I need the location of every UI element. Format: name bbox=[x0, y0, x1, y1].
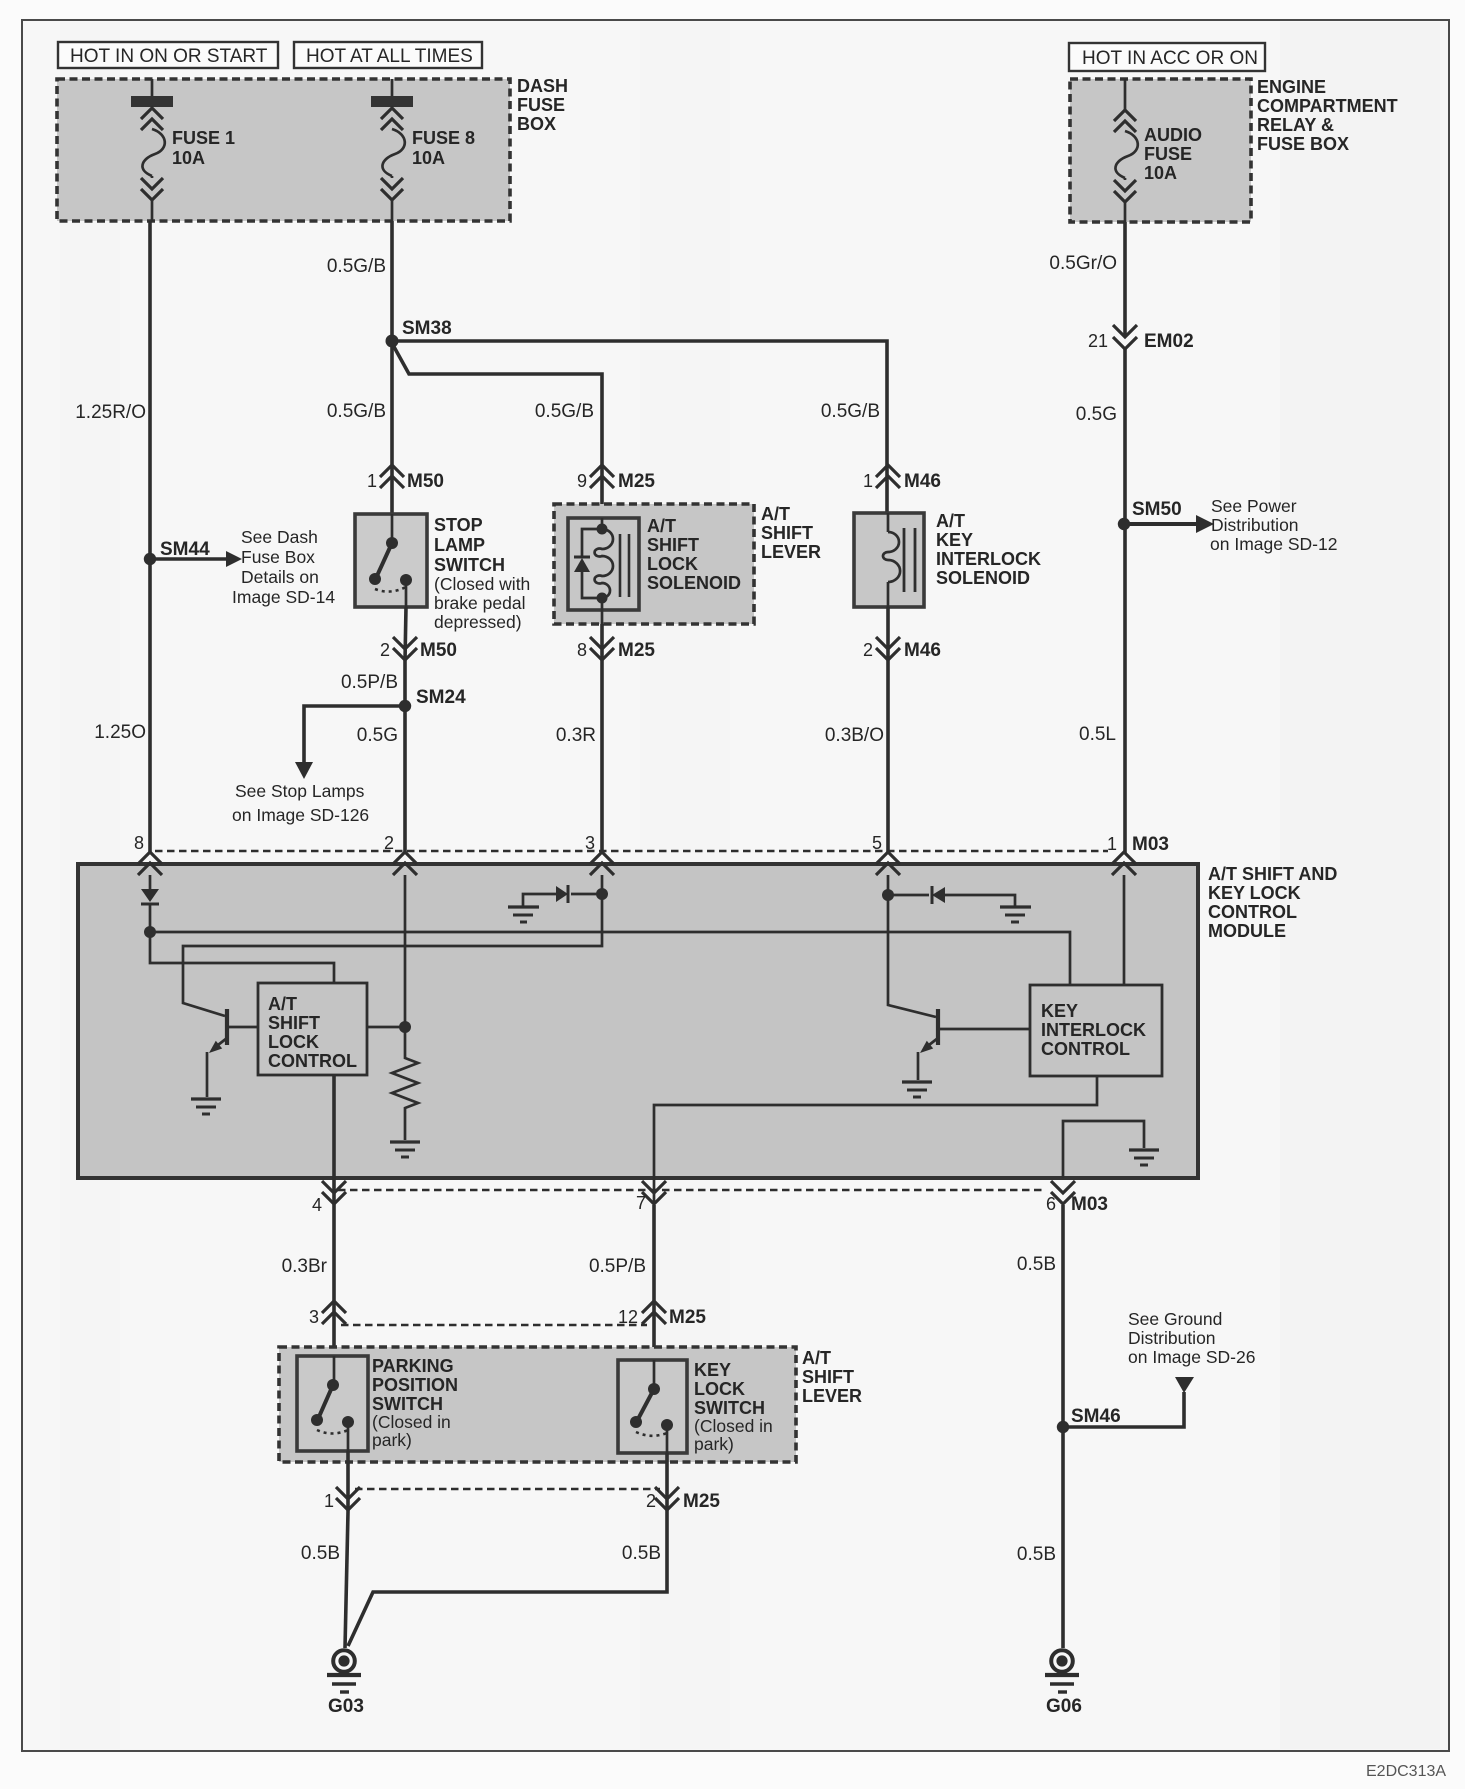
svg-text:0.5G/B: 0.5G/B bbox=[327, 256, 386, 277]
connector M50 pin 1 bbox=[367, 465, 444, 492]
svg-text:LAMP: LAMP bbox=[434, 535, 485, 555]
module pin 6 bbox=[1046, 1181, 1108, 1215]
wire SM38 to M46 column bbox=[392, 341, 887, 513]
diode D2 at pin 3 with ground bbox=[523, 885, 602, 906]
transistor Q2 (key interlock) bbox=[918, 1009, 1030, 1080]
svg-text:ENGINE: ENGINE bbox=[1257, 77, 1326, 97]
dash fuse box (dashed enclosure) bbox=[57, 76, 568, 221]
svg-text:HOT IN ACC OR ON: HOT IN ACC OR ON bbox=[1082, 48, 1258, 69]
svg-text:2: 2 bbox=[863, 640, 873, 660]
wire rail pin8 to key interlock control bbox=[150, 932, 1070, 985]
svg-text:A/T: A/T bbox=[268, 994, 297, 1014]
wire M25-1 to ground G03 bbox=[345, 1512, 348, 1648]
A/T shift lever (dashed enclosure, solenoid) bbox=[554, 504, 821, 624]
switch PARKING POSITION SWITCH bbox=[297, 1356, 458, 1451]
wire SM38 branch to M25 column bbox=[393, 345, 602, 518]
svg-text:0.5G: 0.5G bbox=[1076, 404, 1117, 425]
svg-text:10A: 10A bbox=[412, 148, 445, 168]
wire label 0.5B (parking) bbox=[301, 1543, 340, 1564]
svg-text:LOCK: LOCK bbox=[694, 1379, 745, 1399]
svg-text:E2DC313A: E2DC313A bbox=[1366, 1763, 1446, 1780]
svg-text:A/T: A/T bbox=[647, 516, 676, 536]
svg-text:SM38: SM38 bbox=[402, 318, 452, 339]
svg-text:A/T: A/T bbox=[761, 504, 790, 524]
svg-text:G06: G06 bbox=[1046, 1696, 1082, 1717]
svg-text:3: 3 bbox=[585, 833, 595, 853]
svg-text:AUDIO: AUDIO bbox=[1144, 125, 1202, 145]
svg-text:0.5G: 0.5G bbox=[357, 725, 398, 746]
svg-text:PARKING: PARKING bbox=[372, 1356, 454, 1376]
wire M25-2 to ground G03 bbox=[348, 1512, 667, 1646]
svg-text:MODULE: MODULE bbox=[1208, 921, 1286, 941]
node SM46 with ground distribution branch bbox=[1057, 1309, 1256, 1433]
fuse FUSE 8 10A bbox=[371, 79, 475, 221]
svg-text:FUSE 8: FUSE 8 bbox=[412, 128, 475, 148]
wire label 0.5P/B bbox=[589, 1256, 646, 1277]
svg-text:HOT IN ON OR START: HOT IN ON OR START bbox=[70, 46, 268, 67]
svg-text:FUSE 1: FUSE 1 bbox=[172, 128, 235, 148]
svg-text:Details on: Details on bbox=[241, 567, 319, 587]
module pin 2 bbox=[384, 833, 417, 875]
label box HOT IN ON OR START bbox=[58, 42, 278, 68]
svg-text:See Power: See Power bbox=[1211, 496, 1297, 516]
connector M25 pin 2 bbox=[646, 1453, 720, 1512]
svg-text:LOCK: LOCK bbox=[647, 554, 698, 574]
wire pin 6 to module ground bbox=[1063, 1121, 1144, 1178]
svg-text:EM02: EM02 bbox=[1144, 331, 1194, 352]
svg-text:0.5G/B: 0.5G/B bbox=[821, 401, 880, 422]
svg-text:SOLENOID: SOLENOID bbox=[936, 568, 1030, 588]
wire pin 2 vertical bbox=[404, 875, 407, 1027]
svg-text:0.3B/O: 0.3B/O bbox=[825, 725, 884, 746]
ground (Q1 emitter) bbox=[191, 1099, 221, 1114]
svg-text:0.5G/B: 0.5G/B bbox=[535, 401, 594, 422]
svg-text:M46: M46 bbox=[904, 640, 941, 661]
wire label 0.5B (upper right) bbox=[1017, 1254, 1056, 1275]
svg-text:LEVER: LEVER bbox=[802, 1386, 862, 1406]
connector M46 pin 2 bbox=[863, 607, 941, 661]
block A/T SHIFT LOCK CONTROL bbox=[258, 983, 367, 1075]
svg-text:8: 8 bbox=[134, 833, 144, 853]
svg-text:A/T: A/T bbox=[802, 1348, 831, 1368]
svg-text:HOT AT ALL TIMES: HOT AT ALL TIMES bbox=[306, 46, 473, 67]
wire pin 6 to ground G06 bbox=[1061, 1205, 1065, 1648]
ground (module internal, pin 6) bbox=[1129, 1150, 1159, 1165]
svg-text:on Image SD-12: on Image SD-12 bbox=[1210, 534, 1337, 554]
A/T shift lever (dashed enclosure, switches) bbox=[279, 1347, 862, 1462]
node SM50 with arrow bbox=[1118, 496, 1338, 554]
svg-text:M25: M25 bbox=[683, 1491, 720, 1512]
wire label 0.5G/B (left column) bbox=[327, 401, 386, 422]
svg-text:21: 21 bbox=[1088, 331, 1108, 351]
wire M46-2 to module pin 5 bbox=[886, 661, 890, 853]
engine compartment relay & fuse box (dashed enclosure) bbox=[1070, 77, 1398, 222]
module pin 3 bbox=[585, 833, 614, 875]
svg-text:1: 1 bbox=[367, 471, 377, 491]
wire label 0.5G/B (fuse 8) bbox=[327, 256, 386, 277]
svg-text:FUSE: FUSE bbox=[517, 95, 565, 115]
fuse FUSE 1 10A bbox=[131, 79, 235, 221]
svg-text:SHIFT: SHIFT bbox=[761, 523, 813, 543]
svg-text:4: 4 bbox=[312, 1195, 322, 1215]
svg-text:M25: M25 bbox=[618, 471, 655, 492]
svg-text:2: 2 bbox=[646, 1491, 656, 1511]
node SM38 bbox=[386, 318, 452, 348]
wire label 0.5G bbox=[1076, 404, 1117, 425]
svg-text:9: 9 bbox=[577, 471, 587, 491]
svg-text:SWITCH: SWITCH bbox=[372, 1394, 443, 1414]
svg-text:KEY: KEY bbox=[694, 1360, 731, 1380]
svg-text:SM46: SM46 bbox=[1071, 1406, 1121, 1427]
svg-text:CONTROL: CONTROL bbox=[1041, 1039, 1130, 1059]
wire M25-8 to module pin 3 bbox=[600, 661, 604, 853]
block KEY INTERLOCK CONTROL bbox=[1030, 985, 1162, 1076]
svg-text:M50: M50 bbox=[407, 471, 444, 492]
svg-text:A/T SHIFT AND: A/T SHIFT AND bbox=[1208, 864, 1337, 884]
svg-text:INTERLOCK: INTERLOCK bbox=[1041, 1020, 1146, 1040]
svg-text:SWITCH: SWITCH bbox=[694, 1398, 765, 1418]
svg-text:M46: M46 bbox=[904, 471, 941, 492]
wire control box to pin2 node bbox=[367, 1026, 405, 1029]
wire label 0.5Gr/O bbox=[1049, 253, 1117, 274]
ground (pin 3 diode) bbox=[508, 907, 539, 922]
svg-text:BOX: BOX bbox=[517, 114, 556, 134]
svg-text:10A: 10A bbox=[172, 148, 205, 168]
diode D1 at pin 8 bbox=[141, 875, 159, 928]
svg-text:Fuse Box: Fuse Box bbox=[241, 547, 315, 567]
svg-text:KEY: KEY bbox=[936, 530, 973, 550]
module A/T SHIFT AND KEY LOCK CONTROL MODULE (body) bbox=[78, 864, 1337, 1178]
svg-text:M50: M50 bbox=[420, 640, 457, 661]
svg-text:SOLENOID: SOLENOID bbox=[647, 573, 741, 593]
wire label 0.5G/B (middle column) bbox=[535, 401, 594, 422]
svg-text:FUSE BOX: FUSE BOX bbox=[1257, 134, 1349, 154]
module pin 1 bbox=[1112, 852, 1136, 875]
svg-text:3: 3 bbox=[309, 1307, 319, 1327]
svg-text:10A: 10A bbox=[1144, 163, 1177, 183]
svg-text:1: 1 bbox=[863, 471, 873, 491]
svg-text:1: 1 bbox=[324, 1491, 334, 1511]
svg-text:1.25O: 1.25O bbox=[94, 722, 146, 743]
label box HOT IN ACC OR ON bbox=[1069, 43, 1265, 71]
ground G03 bbox=[327, 1650, 364, 1717]
connector M25 pin 3 bbox=[309, 1301, 346, 1327]
wire label 0.3R bbox=[556, 725, 596, 746]
svg-text:A/T: A/T bbox=[936, 511, 965, 531]
svg-text:SHIFT: SHIFT bbox=[647, 535, 699, 555]
wire label 0.5G/B (right column) bbox=[821, 401, 880, 422]
svg-text:SHIFT: SHIFT bbox=[802, 1367, 854, 1387]
module pin 4 bbox=[312, 1181, 346, 1215]
wire label 1.25O bbox=[94, 722, 146, 743]
svg-text:(Closed in: (Closed in bbox=[694, 1416, 773, 1436]
svg-text:1.25R/O: 1.25R/O bbox=[75, 402, 146, 423]
svg-text:0.5Gr/O: 0.5Gr/O bbox=[1049, 253, 1117, 274]
svg-text:0.5B: 0.5B bbox=[622, 1543, 661, 1564]
svg-text:POSITION: POSITION bbox=[372, 1375, 458, 1395]
node pin5 junction bbox=[882, 889, 894, 901]
wire pin3 to transistor collector rail bbox=[183, 875, 602, 1016]
svg-text:on Image SD-26: on Image SD-26 bbox=[1128, 1347, 1255, 1367]
connector M50 pin 2 bbox=[380, 607, 457, 661]
svg-text:0.5P/B: 0.5P/B bbox=[341, 672, 398, 693]
svg-text:SM24: SM24 bbox=[416, 687, 466, 708]
svg-text:8: 8 bbox=[577, 640, 587, 660]
wire label 0.5B (lower right) bbox=[1017, 1544, 1056, 1565]
svg-text:Distribution: Distribution bbox=[1211, 515, 1299, 535]
svg-text:KEY: KEY bbox=[1041, 1001, 1078, 1021]
solenoid A/T SHIFT LOCK SOLENOID bbox=[568, 516, 741, 624]
svg-text:2: 2 bbox=[384, 833, 394, 853]
svg-text:0.5B: 0.5B bbox=[1017, 1544, 1056, 1565]
wire label 0.5B (key lock) bbox=[622, 1543, 661, 1564]
svg-text:INTERLOCK: INTERLOCK bbox=[936, 549, 1041, 569]
connector M25 pin 1 bbox=[324, 1451, 360, 1512]
svg-text:0.5L: 0.5L bbox=[1079, 724, 1116, 745]
ground (R1) bbox=[390, 1142, 420, 1157]
svg-text:SM50: SM50 bbox=[1132, 499, 1182, 520]
connector M25 pins 3-12 boundary (dashed) bbox=[341, 1324, 647, 1326]
ground (Q2 emitter) bbox=[902, 1082, 932, 1097]
wire fuse1 to module pin 8 bbox=[148, 221, 152, 853]
svg-text:(Closed in: (Closed in bbox=[372, 1412, 451, 1432]
switch STOP LAMP SWITCH bbox=[355, 514, 530, 632]
node resistor junction bbox=[399, 1021, 411, 1033]
connector EM02 pin 21 bbox=[1088, 325, 1194, 352]
wire fuse8 to stop lamp switch bbox=[390, 221, 394, 514]
svg-text:12: 12 bbox=[618, 1307, 638, 1327]
wire pin8 to A/T shift lock control box bbox=[150, 932, 334, 983]
wire label 0.5L bbox=[1079, 724, 1116, 745]
svg-text:park): park) bbox=[694, 1434, 734, 1454]
svg-text:CONTROL: CONTROL bbox=[1208, 902, 1297, 922]
svg-text:SM44: SM44 bbox=[160, 539, 210, 560]
svg-text:on Image SD-126: on Image SD-126 bbox=[232, 805, 369, 825]
node SM24 with stop lamps branch bbox=[232, 687, 466, 825]
label box HOT AT ALL TIMES bbox=[294, 42, 482, 68]
svg-text:2: 2 bbox=[380, 640, 390, 660]
svg-text:park): park) bbox=[372, 1430, 412, 1450]
svg-text:STOP: STOP bbox=[434, 515, 483, 535]
connector M46 pin 1 bbox=[863, 465, 941, 492]
node SM44 with arrow bbox=[144, 527, 336, 607]
wire M50-2 to module pin 2 bbox=[403, 661, 407, 853]
connector M03 bottom boundary (dashed) bbox=[338, 1189, 1046, 1192]
wire label 1.25R/O bbox=[75, 402, 146, 423]
resistor R1 bbox=[392, 1027, 418, 1140]
node pin8 junction bbox=[144, 926, 156, 938]
svg-text:0.3Br: 0.3Br bbox=[282, 1256, 328, 1277]
diagram id E2DC313A bbox=[1366, 1763, 1446, 1780]
svg-text:0.5B: 0.5B bbox=[301, 1543, 340, 1564]
svg-text:RELAY &: RELAY & bbox=[1257, 115, 1334, 135]
wire pin5 to transistor Q2 bbox=[888, 875, 936, 1017]
node pin3 junction bbox=[596, 888, 608, 900]
svg-text:See Stop Lamps: See Stop Lamps bbox=[235, 781, 365, 801]
svg-text:(Closed with: (Closed with bbox=[434, 574, 530, 594]
wire pin 4 to parking position switch bbox=[332, 1205, 336, 1356]
svg-text:KEY LOCK: KEY LOCK bbox=[1208, 883, 1301, 903]
switch KEY LOCK SWITCH bbox=[618, 1360, 773, 1454]
svg-text:See Dash: See Dash bbox=[241, 527, 318, 547]
connector M25 pin 12 bbox=[618, 1301, 706, 1328]
connector M25 pin 9 bbox=[577, 465, 655, 492]
wire pin 1 into key interlock control bbox=[1123, 875, 1126, 985]
svg-text:depressed): depressed) bbox=[434, 612, 522, 632]
svg-text:Distribution: Distribution bbox=[1128, 1328, 1216, 1348]
svg-text:0.5G/B: 0.5G/B bbox=[327, 401, 386, 422]
svg-text:COMPARTMENT: COMPARTMENT bbox=[1257, 96, 1398, 116]
svg-text:M25: M25 bbox=[618, 640, 655, 661]
transistor Q1 (A/T shift lock) bbox=[207, 1009, 258, 1097]
diode D3 at pin 5 with ground bbox=[888, 886, 1015, 906]
svg-text:0.5P/B: 0.5P/B bbox=[589, 1256, 646, 1277]
wire audio fuse to module pin 1 bbox=[1123, 222, 1127, 853]
svg-text:LOCK: LOCK bbox=[268, 1032, 319, 1052]
wire key interlock control to pin 7 bbox=[654, 1076, 1097, 1205]
ground G06 bbox=[1045, 1650, 1082, 1717]
svg-text:brake pedal: brake pedal bbox=[434, 593, 525, 613]
fuse AUDIO FUSE 10A bbox=[1114, 79, 1202, 222]
ground (pin 5 diode) bbox=[1000, 907, 1031, 922]
solenoid A/T KEY INTERLOCK SOLENOID bbox=[854, 511, 1041, 607]
connector M25 pin 8 bbox=[577, 624, 655, 661]
connector M03 top boundary (dashed) bbox=[155, 834, 1169, 855]
wire label 0.3B/O bbox=[825, 725, 884, 746]
svg-text:0.5B: 0.5B bbox=[1017, 1254, 1056, 1275]
svg-text:CONTROL: CONTROL bbox=[268, 1051, 357, 1071]
svg-text:5: 5 bbox=[872, 833, 882, 853]
svg-text:6: 6 bbox=[1046, 1194, 1056, 1214]
svg-text:Image SD-14: Image SD-14 bbox=[232, 587, 335, 607]
wire pin 7 to key lock switch bbox=[652, 1205, 656, 1360]
wire control box to pin 4 bbox=[332, 1075, 336, 1205]
svg-text:SWITCH: SWITCH bbox=[434, 555, 505, 575]
svg-text:DASH: DASH bbox=[517, 76, 568, 96]
svg-text:1: 1 bbox=[1107, 834, 1117, 854]
wire label 0.3Br bbox=[282, 1256, 328, 1277]
module pin 7 bbox=[636, 1181, 666, 1213]
connector M25 pins 1-2 boundary (dashed) bbox=[355, 1488, 660, 1490]
svg-text:LEVER: LEVER bbox=[761, 542, 821, 562]
svg-text:7: 7 bbox=[636, 1193, 646, 1213]
svg-text:SHIFT: SHIFT bbox=[268, 1013, 320, 1033]
module pin 8 bbox=[134, 833, 162, 875]
svg-text:See Ground: See Ground bbox=[1128, 1309, 1222, 1329]
svg-text:M03: M03 bbox=[1071, 1194, 1108, 1215]
wire label 0.5G bbox=[357, 725, 398, 746]
svg-text:M25: M25 bbox=[669, 1307, 706, 1328]
wire label 0.5P/B bbox=[341, 672, 398, 693]
svg-text:FUSE: FUSE bbox=[1144, 144, 1192, 164]
svg-text:M03: M03 bbox=[1132, 834, 1169, 855]
svg-text:0.3R: 0.3R bbox=[556, 725, 596, 746]
module pin 5 bbox=[872, 833, 900, 875]
svg-text:G03: G03 bbox=[328, 1696, 364, 1717]
